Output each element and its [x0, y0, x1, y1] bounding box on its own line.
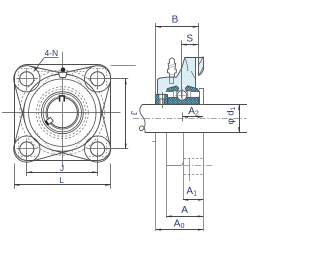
svg-text:L: L	[59, 175, 64, 185]
svg-text:B: B	[172, 15, 179, 26]
svg-text:A: A	[181, 205, 188, 216]
svg-text:A2: A2	[188, 106, 199, 118]
svg-text:4-N: 4-N	[44, 48, 58, 58]
svg-text:J: J	[60, 163, 64, 173]
svg-text:A1: A1	[186, 186, 197, 198]
svg-text:A0: A0	[174, 219, 185, 231]
svg-text:S: S	[186, 33, 193, 44]
svg-text:J: J	[129, 111, 138, 115]
